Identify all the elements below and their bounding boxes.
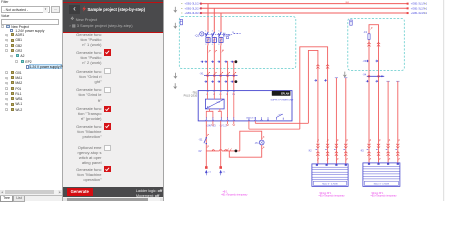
TB1 bottom pins bbox=[205, 117, 269, 121]
svg-text:-H1: -H1 bbox=[255, 142, 260, 145]
interruption point arrow mid-left 1 bbox=[173, 73, 177, 79]
fuse F1 bbox=[363, 27, 372, 39]
svg-text:2.1: 2.1 bbox=[208, 172, 212, 174]
socket arrows M1 bbox=[314, 78, 347, 82]
svg-text:-X2: -X2 bbox=[308, 150, 312, 152]
wire 0V horizontal bbox=[198, 149, 240, 154]
wire power rail L3 bbox=[200, 12, 409, 14]
svg-text:EPLAN: EPLAN bbox=[281, 93, 289, 96]
svg-text:-S1: -S1 bbox=[199, 139, 204, 142]
node label rail L2 left bbox=[181, 6, 201, 10]
wire phase column x227.6 bbox=[227, 61, 229, 91]
svg-text:3: 3 bbox=[212, 30, 213, 32]
TB1 internal relay contact bbox=[276, 114, 283, 120]
socket arrows row 1 bbox=[201, 61, 234, 63]
svg-text:-X5: -X5 bbox=[360, 150, 364, 152]
junction dot PE bottom bbox=[235, 80, 238, 83]
interruption point arrow top-left 2 bbox=[173, 23, 177, 29]
wire feeder M2-4 bbox=[397, 81, 399, 163]
wire hairpin inner M1 bbox=[308, 50, 318, 164]
structure box GB2 tag bbox=[350, 20, 352, 25]
wire phase column x233.8 bbox=[233, 61, 235, 91]
socket arrows M2 row2 bbox=[366, 80, 400, 82]
svg-text:+GB1-3L3/2.4: +GB1-3L3/2.4 bbox=[185, 11, 202, 15]
transformer rectifier symbol bbox=[205, 99, 224, 109]
tree bbox=[0, 22, 62, 122]
bottom main scrollbar bbox=[63, 197, 164, 201]
wire stub 23 bbox=[254, 121, 256, 123]
motor unit M1 box bbox=[312, 164, 348, 187]
svg-text:-F1: -F1 bbox=[363, 31, 367, 34]
svg-text:Motor 3~ 0.75kW: Motor 3~ 0.75kW bbox=[374, 183, 389, 186]
wire hairpin outer M1 bbox=[300, 47, 328, 164]
power supply unit TB1 box bbox=[198, 91, 292, 121]
svg-text:-X4: -X4 bbox=[363, 74, 367, 76]
svg-text:+GB1-3L2/2.4: +GB1-3L2/2.4 bbox=[185, 6, 202, 10]
wire power rail L1 bbox=[200, 3, 409, 5]
connector plugs M1 bbox=[308, 144, 347, 156]
svg-text:2: 2 bbox=[222, 50, 224, 52]
interruption point arrow top-left 1 bbox=[173, 7, 177, 13]
wire drop L2 to Q1 bbox=[213, 8, 215, 30]
svg-text:SUPPLY POWER UNIT: SUPPLY POWER UNIT bbox=[271, 99, 295, 101]
svg-text:0V: 0V bbox=[198, 150, 201, 153]
node label rail L1 left bbox=[181, 2, 201, 6]
svg-text:+GB1-3L1/2.4: +GB1-3L1/2.4 bbox=[185, 2, 202, 6]
label Q1 pin marks bbox=[209, 50, 225, 53]
connector pins M1 mid bbox=[316, 65, 329, 69]
svg-text:4: 4 bbox=[212, 44, 213, 46]
svg-text:1: 1 bbox=[205, 30, 206, 32]
wire stub 13 bbox=[248, 121, 250, 129]
wire feeder M1-3 bbox=[335, 78, 337, 164]
wire phase column x214.3 bbox=[213, 45, 215, 90]
switch S1 bbox=[199, 134, 209, 148]
wire M2 columns upper bbox=[369, 61, 379, 163]
socket arrows M2 row1 bbox=[363, 60, 378, 63]
svg-text:-X3: -X3 bbox=[363, 61, 367, 63]
svg-text:5: 5 bbox=[218, 30, 219, 32]
wire lamp return loop bbox=[229, 145, 261, 157]
svg-text:13 14 23 24: 13 14 23 24 bbox=[246, 117, 256, 119]
EPLAN logo block bbox=[272, 91, 291, 96]
svg-text:=: = bbox=[181, 12, 183, 15]
header bbox=[63, 0, 164, 33]
lamp H1 bbox=[255, 136, 265, 148]
svg-text:+24V 1.3: +24V 1.3 bbox=[206, 125, 216, 128]
svg-text:=: = bbox=[181, 7, 183, 10]
wire phase column x220.7 bbox=[220, 45, 222, 90]
LEFT TREE PANEL bbox=[0, 0, 63, 201]
node label rail L2 right bbox=[411, 6, 428, 10]
svg-text:PULS QS10: PULS QS10 bbox=[184, 95, 198, 98]
tabs bbox=[0, 195, 62, 202]
connector arcs on 0V wire bbox=[212, 150, 227, 151]
wire drop L3 to Q1 bbox=[220, 13, 222, 30]
connector pins F1 bbox=[367, 42, 380, 46]
fuse F1 loop bbox=[369, 25, 379, 61]
wire feed left 24V to hairpin bbox=[249, 128, 300, 130]
wire feeder M1-4 bbox=[345, 78, 347, 164]
interruption point arrow mid-left 2 bbox=[173, 83, 177, 89]
wire TB1 internal feeds bbox=[206, 92, 234, 118]
svg-text:Wiring 3P 1: Wiring 3P 1 bbox=[372, 192, 385, 195]
label TB1 outputs bbox=[206, 125, 227, 128]
terminal end 0V bbox=[219, 166, 226, 175]
label page cross reference bbox=[221, 191, 248, 196]
wire drop L1 to Q1 bbox=[207, 4, 209, 31]
wire feed left 0V to hairpin bbox=[255, 122, 308, 124]
wire 0V column bbox=[220, 121, 222, 167]
svg-text:=B1+Torqeedo temporary: =B1+Torqeedo temporary bbox=[221, 193, 248, 196]
TB1 top pins bbox=[206, 91, 236, 97]
COGINEER PANEL bbox=[63, 0, 164, 201]
node label rail L3 left bbox=[181, 11, 201, 15]
svg-text:=B1+Torqeedo temporary: =B1+Torqeedo temporary bbox=[371, 195, 398, 198]
svg-text:AC: AC bbox=[207, 106, 210, 109]
items bbox=[63, 0, 164, 201]
socket arrows row 2 bbox=[204, 81, 233, 83]
terminal end +24V bbox=[205, 166, 212, 175]
wire stub outputs bbox=[212, 121, 235, 126]
connector plugs M2 bbox=[360, 144, 399, 156]
wire feeder M2-3 bbox=[387, 81, 389, 163]
interruption point arrow near motor feeders bbox=[343, 72, 347, 78]
svg-text:Motor 3~ 0.75kW: Motor 3~ 0.75kW bbox=[322, 183, 337, 186]
svg-text:6: 6 bbox=[218, 44, 219, 46]
circuit breaker Q1 bbox=[195, 30, 241, 46]
svg-text:=B 1: =B 1 bbox=[223, 191, 229, 193]
svg-text:2.1: 2.1 bbox=[223, 172, 227, 174]
structure box GB1 (dashed) bbox=[179, 17, 295, 69]
junction dot PE top bbox=[235, 60, 238, 63]
wire power rail L2 bbox=[200, 7, 409, 9]
footer bbox=[63, 187, 164, 198]
svg-text:=: = bbox=[181, 3, 183, 6]
node label rail L1 right bbox=[411, 2, 428, 6]
structure box GB1 tag bbox=[180, 19, 182, 24]
SCHEMATIC AREA bbox=[164, 0, 450, 201]
svg-text:2: 2 bbox=[205, 44, 206, 46]
svg-text:Wiring 3P 1: Wiring 3P 1 bbox=[320, 192, 333, 195]
svg-text:24V: 24V bbox=[216, 102, 220, 104]
wire +24V column bbox=[205, 121, 207, 167]
svg-text:=B1+Torqeedo temporary: =B1+Torqeedo temporary bbox=[319, 195, 346, 198]
connection point slashes on feeders bbox=[317, 140, 400, 161]
tree h scrollbar bbox=[0, 190, 62, 195]
svg-text:-Q1: -Q1 bbox=[195, 33, 200, 37]
structure box GB2 (dashed) bbox=[348, 18, 405, 70]
svg-text:-X1: -X1 bbox=[200, 72, 205, 76]
wire phase column x207.6 bbox=[207, 45, 209, 90]
label TB1 bbox=[184, 91, 198, 97]
terminal strip X4 bbox=[363, 74, 385, 77]
terminal strip X1 bbox=[200, 72, 238, 77]
node label rail L3 right bbox=[411, 11, 428, 15]
label motor M1 bbox=[319, 192, 346, 198]
svg-text:CE: CE bbox=[226, 33, 230, 37]
wire lamp branch up bbox=[240, 131, 262, 151]
motor unit M2 box bbox=[363, 163, 400, 187]
label motor M2 bbox=[371, 192, 398, 198]
